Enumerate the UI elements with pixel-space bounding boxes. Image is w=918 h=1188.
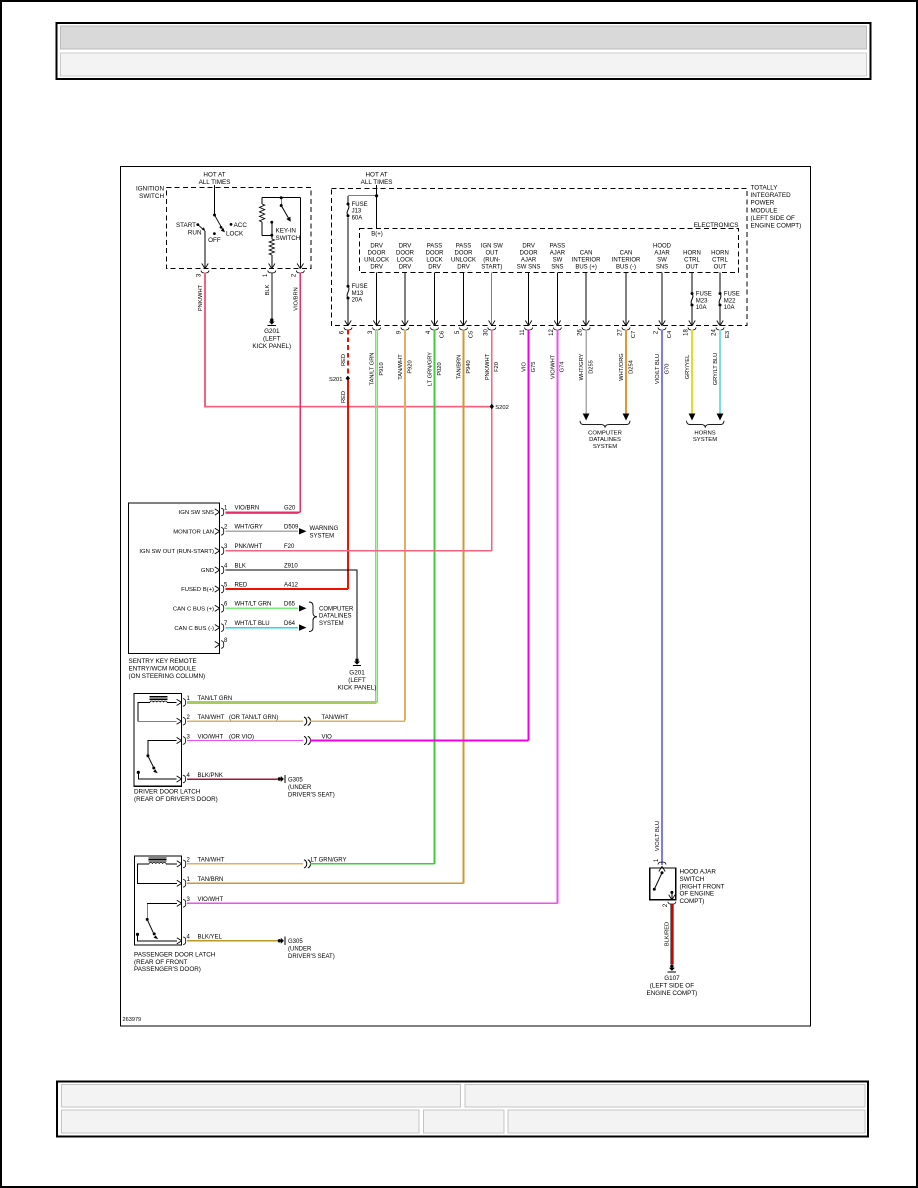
TIPM pin 26 bbox=[583, 321, 586, 326]
svg-text:SYSTEM: SYSTEM bbox=[593, 444, 617, 450]
driver door latch box bbox=[134, 694, 181, 787]
fuse M22 10A bbox=[719, 292, 722, 295]
wire LT GRN/GRY P020 bbox=[434, 330, 436, 865]
wire TAN/LT GRN P910 bbox=[375, 330, 377, 703]
svg-text:FUSE: FUSE bbox=[352, 284, 368, 290]
svg-text:(LEFT SIDE OF: (LEFT SIDE OF bbox=[751, 215, 795, 222]
TIPM pin 11 bbox=[525, 321, 528, 326]
svg-text:BLK/RED: BLK/RED bbox=[665, 922, 671, 946]
svg-text:J13: J13 bbox=[352, 209, 362, 215]
svg-text:Z910: Z910 bbox=[284, 563, 298, 569]
svg-text:IGNITION: IGNITION bbox=[136, 186, 164, 193]
svg-text:P910: P910 bbox=[379, 362, 385, 375]
top header bar 2 bbox=[61, 53, 867, 76]
svg-text:AJAR: AJAR bbox=[550, 251, 566, 257]
svg-text:9: 9 bbox=[397, 330, 403, 334]
ignition switch rotor bbox=[213, 214, 216, 217]
svg-text:SNS: SNS bbox=[551, 264, 563, 270]
wire TAN/BRN P940 bbox=[463, 330, 465, 884]
ignition pin 3 bbox=[202, 264, 205, 269]
passenger door latch box bbox=[135, 856, 182, 945]
computer datalines brace bbox=[580, 421, 630, 428]
svg-text:18: 18 bbox=[684, 329, 690, 336]
footer row2 cell1 bbox=[62, 1110, 420, 1133]
svg-text:1: 1 bbox=[654, 858, 660, 862]
svg-text:OUT: OUT bbox=[714, 264, 727, 270]
ground G107 bbox=[670, 965, 673, 968]
top header box bbox=[57, 23, 871, 79]
wire BLK SKREEM pin4 to ground bbox=[226, 570, 358, 658]
hood ajar switch box bbox=[650, 868, 676, 900]
ignition contact OFF bbox=[213, 232, 216, 235]
svg-text:RED: RED bbox=[341, 354, 347, 366]
wire WHT/LT GRN CAN C bus+ bbox=[226, 607, 299, 609]
SKREEM pin 5 FUSED B(+) bbox=[215, 586, 220, 589]
svg-text:CAN C BUS (+): CAN C BUS (+) bbox=[173, 607, 214, 613]
hood ajar switch pin2 bbox=[669, 895, 672, 900]
svg-text:SWITCH: SWITCH bbox=[680, 876, 705, 883]
svg-text:(OR VIO): (OR VIO) bbox=[229, 734, 254, 740]
svg-text:D65: D65 bbox=[284, 602, 296, 608]
driver latch switch bbox=[148, 741, 177, 755]
svg-text:SW: SW bbox=[657, 257, 667, 263]
svg-text:E3: E3 bbox=[725, 331, 731, 338]
svg-text:BLK/PNK: BLK/PNK bbox=[198, 773, 223, 779]
hood ajar switch contact bbox=[670, 891, 673, 894]
TIPM pin 9 bbox=[402, 321, 405, 326]
wire BLK/YEL passenger latch pin4 to ground bbox=[187, 940, 278, 942]
svg-text:(UNDER: (UNDER bbox=[288, 785, 312, 791]
svg-text:INTERIOR: INTERIOR bbox=[572, 257, 601, 263]
svg-text:263979: 263979 bbox=[123, 1017, 142, 1023]
svg-text:PASS: PASS bbox=[427, 244, 443, 250]
SKREEM module box bbox=[129, 503, 220, 654]
key-in right branch to pin 2 bbox=[299, 198, 301, 268]
svg-text:GRY/LT BLU: GRY/LT BLU bbox=[713, 353, 719, 386]
svg-text:INTEGRATED: INTEGRATED bbox=[751, 192, 792, 199]
svg-text:DATALINES: DATALINES bbox=[319, 614, 351, 620]
svg-text:BUS (+): BUS (+) bbox=[575, 264, 597, 270]
passenger latch pin 2 bbox=[177, 861, 182, 864]
wire VIO/WHT passenger latch pin3 bbox=[187, 902, 557, 904]
svg-text:MODULE: MODULE bbox=[751, 207, 778, 214]
wire fuse M13 to pin 6 bbox=[347, 298, 349, 325]
svg-text:BLK: BLK bbox=[265, 284, 271, 295]
svg-text:P940: P940 bbox=[466, 360, 472, 373]
svg-text:SWITCH: SWITCH bbox=[139, 193, 164, 200]
TIPM pin 3 bbox=[373, 321, 376, 326]
svg-text:G107: G107 bbox=[664, 975, 680, 982]
svg-text:VIO/LT BLU: VIO/LT BLU bbox=[655, 821, 661, 851]
TIPM pin 5 bbox=[460, 321, 463, 326]
fuse M23 10A bbox=[691, 292, 694, 295]
top header bar 1 bbox=[61, 26, 867, 49]
svg-text:D64: D64 bbox=[284, 621, 296, 627]
svg-text:COMPUTER: COMPUTER bbox=[588, 431, 622, 437]
wire fuse J13 to fuse M13 bbox=[347, 218, 349, 288]
svg-text:VIO/WHT: VIO/WHT bbox=[198, 734, 224, 740]
svg-text:3: 3 bbox=[368, 330, 374, 334]
svg-text:BLK/YEL: BLK/YEL bbox=[198, 935, 223, 941]
svg-text:BUS (-): BUS (-) bbox=[616, 264, 636, 270]
wire hot feed into ignition switch bbox=[214, 185, 216, 215]
svg-text:ALL TIMES: ALL TIMES bbox=[199, 179, 231, 186]
svg-text:IGN SW: IGN SW bbox=[481, 244, 503, 250]
svg-text:VIO/BRN: VIO/BRN bbox=[235, 505, 260, 511]
splice S201 bbox=[346, 376, 350, 381]
svg-text:SWITCH: SWITCH bbox=[276, 235, 301, 242]
ignition pin 2 bbox=[297, 264, 300, 269]
svg-text:VIO/LT BLU: VIO/LT BLU bbox=[655, 354, 661, 384]
svg-text:VIO/WHT: VIO/WHT bbox=[551, 354, 557, 379]
svg-text:SW SNS: SW SNS bbox=[517, 264, 541, 270]
svg-text:GRY/YEL: GRY/YEL bbox=[685, 355, 691, 380]
bottom footer box bbox=[57, 1082, 868, 1137]
wire BLK/PNK driver latch pin4 to ground bbox=[187, 778, 278, 780]
svg-text:1: 1 bbox=[224, 505, 228, 511]
svg-text:3: 3 bbox=[187, 897, 191, 903]
svg-text:(UNDER: (UNDER bbox=[288, 947, 312, 953]
SKREEM pin 3 IGN SW OUT (RUN-START) bbox=[215, 548, 220, 551]
svg-text:PASSENGER DOOR LATCH: PASSENGER DOOR LATCH bbox=[134, 952, 216, 959]
wire hot feed into TIPM bbox=[376, 185, 378, 229]
svg-text:INTERIOR: INTERIOR bbox=[612, 257, 641, 263]
svg-text:G305: G305 bbox=[288, 939, 303, 945]
svg-text:F20: F20 bbox=[284, 544, 295, 550]
svg-text:C4: C4 bbox=[667, 330, 673, 338]
svg-text:(REAR OF FRONT: (REAR OF FRONT bbox=[134, 959, 188, 966]
svg-text:ALL TIMES: ALL TIMES bbox=[361, 179, 393, 186]
svg-text:DRV: DRV bbox=[457, 264, 470, 270]
wire VIO G75 bbox=[528, 330, 530, 741]
wire WHT/ORG D254 bbox=[625, 330, 627, 414]
svg-text:VIO: VIO bbox=[322, 734, 333, 740]
svg-text:3: 3 bbox=[196, 273, 202, 277]
wire GRY/LT BLU horn bbox=[719, 330, 721, 414]
svg-text:S202: S202 bbox=[495, 405, 509, 411]
svg-text:(ON STEERING COLUMN): (ON STEERING COLUMN) bbox=[129, 673, 206, 680]
key-in switch contact bbox=[270, 221, 273, 224]
svg-text:P920: P920 bbox=[407, 360, 413, 373]
svg-text:HORN: HORN bbox=[711, 251, 729, 257]
hood ajar switch blade bbox=[661, 871, 664, 874]
svg-text:G201: G201 bbox=[264, 328, 280, 335]
svg-text:PNK/WHT: PNK/WHT bbox=[198, 284, 204, 311]
svg-text:S201: S201 bbox=[329, 377, 343, 383]
svg-text:CAN C BUS (-): CAN C BUS (-) bbox=[174, 626, 214, 632]
svg-text:DRIVER'S SEAT): DRIVER'S SEAT) bbox=[288, 954, 335, 960]
ignition pin 1 bbox=[269, 264, 272, 269]
svg-text:OF ENGINE: OF ENGINE bbox=[680, 891, 715, 898]
wire PNK/WHT to SKREEM pin3 bbox=[226, 550, 492, 552]
wire WHT/LT BLU CAN C bus- bbox=[226, 627, 299, 629]
svg-text:AJAR: AJAR bbox=[521, 257, 537, 263]
svg-text:HORN: HORN bbox=[683, 251, 701, 257]
svg-text:1: 1 bbox=[187, 877, 191, 883]
key-in resistor left branch bbox=[261, 198, 263, 204]
svg-text:G75: G75 bbox=[531, 362, 537, 373]
TIPM pin 6 bbox=[345, 321, 348, 326]
svg-text:3: 3 bbox=[224, 544, 228, 550]
svg-text:HOOD AJAR: HOOD AJAR bbox=[680, 869, 717, 876]
svg-text:DRV: DRV bbox=[399, 264, 412, 270]
footer row1 cell2 bbox=[465, 1085, 865, 1108]
driver latch pin 2 bbox=[177, 718, 182, 721]
svg-text:LT GRN/GRY: LT GRN/GRY bbox=[428, 352, 434, 386]
wire BLK/RED hood switch to ground bbox=[670, 904, 673, 965]
svg-text:VIO: VIO bbox=[522, 362, 528, 372]
footer row2 cell3 bbox=[508, 1110, 865, 1133]
svg-text:D509: D509 bbox=[284, 525, 299, 531]
svg-text:PASS: PASS bbox=[550, 244, 566, 250]
svg-text:M22: M22 bbox=[724, 298, 736, 304]
svg-text:4: 4 bbox=[224, 563, 228, 569]
svg-text:24: 24 bbox=[712, 329, 718, 336]
svg-text:HOT AT: HOT AT bbox=[366, 172, 388, 179]
wire TAN/WHT P920 bbox=[404, 330, 406, 721]
TIPM dashed box bbox=[332, 189, 748, 326]
svg-text:SYSTEM: SYSTEM bbox=[319, 621, 344, 627]
ignition contact START bbox=[196, 223, 199, 226]
svg-text:4: 4 bbox=[187, 773, 191, 779]
svg-text:PASS: PASS bbox=[456, 244, 472, 250]
wire VIO driver latch pin3 bbox=[187, 740, 303, 742]
svg-text:2: 2 bbox=[292, 273, 298, 277]
svg-text:27: 27 bbox=[618, 329, 624, 336]
svg-text:1: 1 bbox=[263, 273, 269, 277]
svg-text:VIO/BRN: VIO/BRN bbox=[293, 287, 299, 310]
svg-text:26: 26 bbox=[578, 329, 584, 336]
svg-text:IGN SW OUT (RUN-START): IGN SW OUT (RUN-START) bbox=[139, 549, 214, 555]
wire PNK/WHT F20 bbox=[491, 330, 493, 551]
svg-text:TAN/BRN: TAN/BRN bbox=[457, 355, 463, 380]
wire VIO/BRN ignition pin2 bbox=[299, 272, 301, 512]
driver latch motor bbox=[150, 701, 167, 702]
computer datalines brace SKREEM bbox=[309, 602, 317, 632]
wire VIO/WHT G74 bbox=[556, 330, 558, 904]
svg-text:POWER: POWER bbox=[751, 200, 775, 207]
svg-text:START: START bbox=[176, 222, 196, 229]
svg-text:CAN: CAN bbox=[620, 251, 633, 257]
wire BLK ignition pin1 bbox=[271, 272, 273, 318]
wire TAN/WHT passenger latch pin2 bbox=[187, 863, 303, 865]
svg-text:ENTRY/WCM MODULE: ENTRY/WCM MODULE bbox=[129, 666, 196, 673]
svg-text:TAN/WHT: TAN/WHT bbox=[322, 715, 349, 721]
wire WHT/GRY to warning system bbox=[226, 530, 299, 532]
svg-text:LOCK: LOCK bbox=[226, 231, 244, 238]
wire TAN/WHT driver latch pin2 bbox=[187, 720, 303, 722]
svg-text:START): START) bbox=[481, 264, 502, 270]
TIPM pin 18 bbox=[689, 321, 692, 326]
svg-text:DRIVER'S SEAT): DRIVER'S SEAT) bbox=[288, 792, 335, 798]
wire RUN contact to pin 3 bbox=[204, 231, 206, 268]
ground G305 passenger bbox=[278, 939, 281, 942]
svg-text:10A: 10A bbox=[724, 305, 735, 311]
svg-text:OUT: OUT bbox=[485, 251, 498, 257]
svg-text:PNK/WHT: PNK/WHT bbox=[235, 544, 263, 550]
svg-text:2: 2 bbox=[663, 903, 669, 907]
TIPM pin 2 bbox=[659, 321, 662, 326]
svg-text:TAN/BRN: TAN/BRN bbox=[198, 877, 224, 883]
svg-text:D255: D255 bbox=[588, 360, 594, 374]
svg-text:FUSE: FUSE bbox=[352, 202, 368, 208]
svg-text:WHT/ORG: WHT/ORG bbox=[619, 353, 625, 381]
key-in lower resistor bbox=[269, 239, 274, 255]
svg-text:FUSED B(+): FUSED B(+) bbox=[181, 587, 214, 593]
wire VIO/LT BLU G70 bbox=[661, 330, 663, 866]
svg-text:(LEFT SIDE OF: (LEFT SIDE OF bbox=[650, 983, 694, 990]
svg-text:FUSE: FUSE bbox=[696, 292, 712, 298]
svg-text:DRV: DRV bbox=[522, 244, 535, 250]
svg-text:DRV: DRV bbox=[370, 244, 383, 250]
svg-text:4: 4 bbox=[187, 935, 191, 941]
svg-text:FUSE: FUSE bbox=[724, 292, 740, 298]
svg-text:WHT/GRY: WHT/GRY bbox=[579, 353, 585, 380]
svg-text:ENGINE COMPT): ENGINE COMPT) bbox=[751, 223, 802, 230]
svg-text:WARNING: WARNING bbox=[310, 526, 339, 532]
svg-text:OFF: OFF bbox=[208, 237, 221, 244]
svg-text:GND: GND bbox=[201, 568, 214, 574]
svg-text:ELECTRONICS: ELECTRONICS bbox=[694, 222, 739, 229]
svg-text:2: 2 bbox=[654, 330, 660, 334]
svg-text:DOOR: DOOR bbox=[520, 251, 539, 257]
svg-text:WHT/GRY: WHT/GRY bbox=[235, 525, 263, 531]
svg-text:KICK PANEL): KICK PANEL) bbox=[338, 685, 377, 692]
svg-text:DOOR: DOOR bbox=[368, 251, 387, 257]
svg-text:SW: SW bbox=[553, 257, 563, 263]
svg-text:COMPUTER: COMPUTER bbox=[319, 607, 354, 613]
svg-text:SYSTEM: SYSTEM bbox=[310, 534, 335, 540]
ignition switch dashed box bbox=[167, 188, 312, 269]
svg-text:TAN/WHT: TAN/WHT bbox=[198, 858, 225, 864]
horns system brace bbox=[687, 421, 725, 428]
svg-text:(RUN-: (RUN- bbox=[483, 257, 500, 263]
SKREEM pin 2 MONITOR LAN bbox=[215, 528, 220, 531]
svg-text:DOOR: DOOR bbox=[455, 251, 474, 257]
svg-text:TOTALLY: TOTALLY bbox=[751, 185, 779, 192]
fuse M13 20A bbox=[347, 285, 350, 288]
svg-text:KICK PANEL): KICK PANEL) bbox=[252, 343, 291, 350]
svg-text:11: 11 bbox=[520, 329, 526, 336]
TIPM pin 24 bbox=[717, 321, 720, 326]
svg-text:MONITOR LAN: MONITOR LAN bbox=[173, 530, 214, 536]
svg-text:(RIGHT FRONT: (RIGHT FRONT bbox=[680, 883, 725, 890]
svg-text:(LEFT: (LEFT bbox=[348, 677, 366, 684]
hood ajar switch pin1 bbox=[659, 866, 662, 871]
svg-text:F20: F20 bbox=[494, 362, 500, 372]
passenger latch pin 3 bbox=[177, 900, 182, 903]
svg-text:5: 5 bbox=[455, 330, 461, 334]
svg-text:COMPT): COMPT) bbox=[680, 898, 705, 905]
svg-text:WHT/LT BLU: WHT/LT BLU bbox=[235, 621, 270, 627]
footer row2 cell2 bbox=[424, 1110, 505, 1133]
wire TAN/LT GRN driver latch pin1 bbox=[187, 701, 377, 703]
svg-text:RED: RED bbox=[341, 391, 347, 403]
svg-text:A412: A412 bbox=[284, 582, 299, 588]
svg-text:6: 6 bbox=[340, 330, 346, 334]
svg-text:(REAR OF DRIVER'S DOOR): (REAR OF DRIVER'S DOOR) bbox=[134, 796, 218, 803]
svg-text:LOCK: LOCK bbox=[426, 257, 442, 263]
svg-text:TAN/WHT: TAN/WHT bbox=[398, 354, 404, 380]
wire VIO/BRN SKREEM pin1 bbox=[226, 511, 301, 513]
ELECTRONICS inner dashed box bbox=[360, 229, 739, 273]
svg-text:M13: M13 bbox=[352, 291, 364, 297]
svg-text:LOCK: LOCK bbox=[397, 257, 413, 263]
svg-text:KEY-IN: KEY-IN bbox=[276, 228, 297, 235]
SKREEM pin 8 bbox=[215, 641, 220, 644]
svg-text:WHT/LT GRN: WHT/LT GRN bbox=[235, 602, 272, 608]
ground G201 SKREEM bbox=[355, 658, 358, 661]
fuse J13 60A bbox=[348, 195, 377, 197]
ignition contact ACC bbox=[230, 223, 233, 226]
svg-text:DRV: DRV bbox=[370, 264, 383, 270]
wire WHT/GRY D255 bbox=[585, 330, 587, 414]
key-in switch blade bbox=[280, 196, 283, 199]
SKREEM pin 1 IGN SW SNS bbox=[215, 509, 220, 512]
svg-text:OUT: OUT bbox=[686, 264, 699, 270]
svg-text:P020: P020 bbox=[437, 362, 443, 375]
svg-text:RED: RED bbox=[235, 582, 248, 588]
svg-text:PASSENGER'S DOOR): PASSENGER'S DOOR) bbox=[134, 966, 201, 973]
svg-text:SENTRY KEY REMOTE: SENTRY KEY REMOTE bbox=[129, 658, 197, 665]
svg-text:ACC: ACC bbox=[234, 222, 248, 229]
SKREEM pin 7 CAN C BUS (-) bbox=[215, 625, 220, 628]
svg-text:30: 30 bbox=[483, 329, 489, 336]
svg-text:60A: 60A bbox=[352, 215, 363, 221]
wire RED to SKREEM pin5 bbox=[226, 588, 348, 590]
svg-text:8: 8 bbox=[224, 638, 228, 644]
svg-text:G74: G74 bbox=[560, 362, 566, 373]
svg-text:B(+): B(+) bbox=[371, 231, 383, 237]
svg-text:HOOD: HOOD bbox=[653, 244, 672, 250]
passenger latch pin 4 bbox=[177, 938, 182, 941]
wire PNK/WHT ignition pin3 bbox=[205, 272, 492, 406]
svg-text:(LEFT: (LEFT bbox=[263, 336, 281, 343]
passenger latch switch bbox=[147, 903, 177, 918]
svg-text:HOT AT: HOT AT bbox=[203, 172, 225, 179]
driver latch pin 4 bbox=[177, 776, 182, 779]
wire TAN/BRN passenger latch pin1 bbox=[187, 882, 464, 884]
svg-text:HORNS: HORNS bbox=[694, 431, 715, 437]
svg-text:PNK/WHT: PNK/WHT bbox=[485, 353, 491, 380]
svg-text:2: 2 bbox=[187, 858, 191, 864]
TIPM pin 12 bbox=[554, 321, 557, 326]
svg-text:AJAR: AJAR bbox=[654, 251, 670, 257]
TIPM pin 27 bbox=[623, 321, 626, 326]
passenger latch pin 1 bbox=[177, 880, 182, 883]
svg-text:LT GRN/GRY: LT GRN/GRY bbox=[311, 858, 347, 864]
svg-text:IGN SW SNS: IGN SW SNS bbox=[179, 510, 214, 516]
SKREEM pin 4 GND bbox=[215, 567, 220, 570]
svg-text:DRIVER DOOR LATCH: DRIVER DOOR LATCH bbox=[134, 789, 201, 796]
wire RED dashed fused feed bbox=[347, 330, 349, 376]
svg-text:20A: 20A bbox=[352, 298, 363, 304]
TIPM pin 30 bbox=[489, 321, 492, 326]
svg-text:RUN: RUN bbox=[188, 230, 202, 237]
svg-text:ENGINE COMPT): ENGINE COMPT) bbox=[647, 990, 698, 997]
svg-text:G305: G305 bbox=[288, 777, 303, 783]
svg-text:CAN: CAN bbox=[580, 251, 593, 257]
SKREEM pin 6 CAN C BUS (+) bbox=[215, 605, 220, 608]
svg-text:D254: D254 bbox=[628, 360, 634, 374]
svg-text:M23: M23 bbox=[696, 298, 708, 304]
svg-text:2: 2 bbox=[187, 715, 191, 721]
driver latch pin 1 bbox=[177, 699, 182, 702]
svg-text:BLK: BLK bbox=[235, 563, 246, 569]
svg-text:(OR TAN/LT GRN): (OR TAN/LT GRN) bbox=[229, 715, 278, 721]
svg-text:G70: G70 bbox=[664, 364, 670, 375]
svg-text:UNLOCK: UNLOCK bbox=[364, 257, 389, 263]
